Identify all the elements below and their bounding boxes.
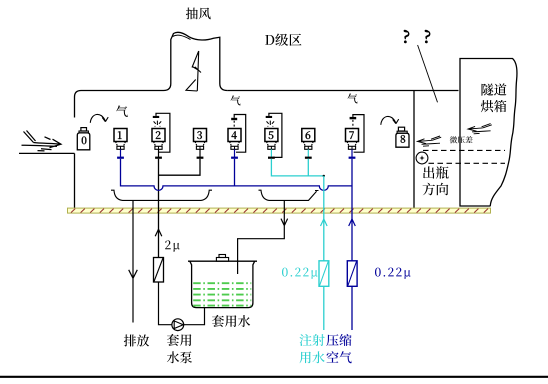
bottle 8 symbol [398,127,404,131]
arrow curved out-feed arc [381,116,396,124]
tank reuse water tank [188,261,257,307]
pipe cyan WFI riser [323,176,325,330]
pipe pump to tank [184,308,205,325]
label 方向 direction [423,183,449,196]
wire room top wall left segment with rounded corner [75,91,164,118]
arrow cyan riser up-arrow [321,219,328,226]
arrow bottle in-feed plane arrow [22,131,62,151]
pipe navy compressed air riser [351,159,353,330]
label 套用 reuse [167,334,192,346]
wire gas bypass bracket station 5 [269,113,282,157]
wire gas bypass bracket station 2 [156,113,170,152]
wire conveyor dashed belt bottom [429,162,506,164]
label 烘箱 oven [481,100,507,112]
tank lid knob [216,258,228,262]
wire gas bypass bracket station 7 [353,115,364,153]
wire conveyor dashed belt top [423,149,505,151]
arrow bottle-out plane arrow right [468,124,492,134]
arrow up-arrow on reuse line [155,229,162,236]
wire exhaust duct outline [164,32,228,90]
arrow curved in-feed arc [90,114,105,122]
wire leader line from question marks [418,45,438,102]
label 0.22μ navy [375,268,411,279]
label 抽风 exhaust [186,8,211,20]
label 空气 air line 2 [326,351,351,363]
wire duct top doubled pen stroke [173,35,191,39]
label 气 gas near station 4 [230,95,240,105]
pipe black drain stations 2-3 junction [159,159,201,258]
filter F2 0.22-micron WFI [319,261,329,287]
pipe navy main header with hops [121,159,353,191]
label 微压差 micro pressure [450,136,473,143]
label 气 gas near station 1 [116,105,128,117]
pipe tub2 drain to tank with arrow [238,200,288,274]
label D级区 grade-D area [265,34,301,47]
pipe cyan header stations 5-6 [271,159,323,176]
spray symbol station 2 [154,121,162,127]
tub 1 condensate tray [111,190,212,200]
label question mark 1 [404,30,409,43]
tank water level dash-dot lines [193,283,251,305]
wire dashed connector station 4 [233,121,235,128]
washing station 2 [152,129,165,142]
washing station 7 [346,129,359,142]
label question mark 2 [425,30,430,43]
washing station 6 [302,129,315,142]
pipe filter to pump [159,282,173,325]
label 水泵 pump [167,351,192,363]
wire room top wall right segment [227,90,458,92]
label 注射 water-for-injection line 1 [300,334,325,346]
valve bar above station 7 [350,117,357,119]
label 2μ filter rating [165,240,180,251]
washing station 3 [194,129,207,142]
filter F1 2-micron [154,258,164,283]
wire room right wall [413,91,415,209]
washing station 4 [228,129,241,142]
label 排放 discharge [124,335,149,347]
washing station 1 [114,129,127,142]
arrow bottle-out plane arrow left [417,136,441,146]
valve bar above station 5 [266,116,272,118]
wire dashed connector station 7 [352,120,354,128]
washing station 5 [265,129,278,142]
label 出瓶 bottles out [423,166,449,179]
pipe navy station 4 drop [234,159,236,186]
wire gas bypass bracket station 4 [234,115,246,153]
pipe drain to waste with arrow [129,200,138,322]
label 0.22μ cyan [282,268,318,279]
tub 2 condensate tray [259,190,319,200]
label 隧道 tunnel [482,83,507,95]
arrow navy riser up-arrow [349,219,356,226]
conveyor roller circle [416,152,428,164]
spray symbol station 5 [267,121,275,127]
label 压缩 compressed line 1 [326,334,351,346]
border bottom rule line [0,376,548,378]
valve bar above station 4 [231,118,237,120]
label 气 gas near station 7 [347,93,357,103]
arrow exhaust up-arrow in duct [186,51,201,91]
pump P1 reuse water pump [172,319,184,331]
wire bottle in-feed shelf [19,152,75,154]
tunnel oven outline [460,59,517,207]
valve bar above station 2 [153,116,159,118]
wire room left wall lower segment [74,153,76,208]
label 套用水 reuse water [212,315,250,327]
filter F3 0.22-micron air [347,261,357,287]
bottle 0 symbol [81,128,87,131]
node junction dot cyan header [323,175,325,177]
label 用水 water-for-injection line 2 [300,351,325,363]
floor hatched band [68,208,491,213]
